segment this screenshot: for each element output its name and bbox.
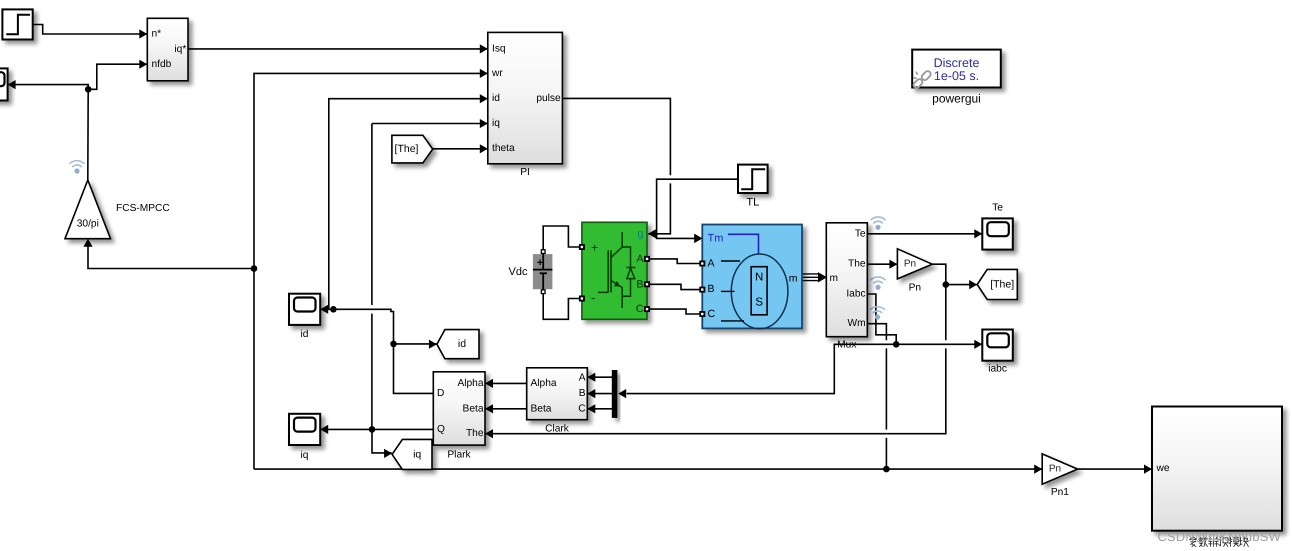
- wire step1 to n* input: [33, 25, 148, 39]
- svg-text:Pn: Pn: [909, 282, 921, 293]
- bus wire motor m to Mux: [802, 272, 827, 282]
- junction dot Iabc branch: [893, 341, 900, 348]
- powergui block: [912, 50, 1001, 90]
- label Te: [992, 203, 1003, 214]
- svg-text:id: id: [458, 338, 466, 350]
- svg-text:FCS-MPCC: FCS-MPCC: [116, 203, 170, 214]
- svg-text:we: we: [1156, 463, 1170, 474]
- label PI: [520, 167, 530, 178]
- svg-text:Wm: Wm: [847, 318, 865, 329]
- label Plark: [447, 450, 471, 461]
- svg-text:id: id: [301, 329, 309, 340]
- wire branch Q to Goto iq tag: [372, 429, 392, 458]
- gain Pn: [897, 249, 932, 279]
- signal logging badge Wm: [871, 307, 885, 320]
- inverter universal bridge (green): [579, 222, 650, 319]
- svg-text:n*: n*: [152, 29, 162, 40]
- wire gain Pn output to Goto[The] and Plark The (with hop gaps): [485, 264, 977, 438]
- subsystem Clark transform: [527, 368, 588, 420]
- svg-text:S: S: [755, 297, 763, 309]
- svg-text:nfdb: nfdb: [152, 59, 172, 70]
- wire From[The] to PI theta: [433, 144, 488, 153]
- wire Mux The to gain Pn: [867, 260, 897, 269]
- svg-text:Te: Te: [855, 228, 866, 239]
- label Pn1: [1051, 487, 1069, 498]
- svg-text:+: +: [537, 257, 543, 269]
- wire PI pulse to inverter g (with hop gap): [562, 98, 670, 238]
- subsystem speed controller n*/nfdb: [147, 18, 188, 81]
- svg-text:m: m: [830, 273, 839, 284]
- wire id feedback up to PI id: [329, 94, 488, 309]
- svg-text:A: A: [708, 257, 715, 269]
- svg-text:iq*: iq*: [174, 44, 186, 55]
- wire Wm feedback vertical to PI wr: [254, 69, 488, 469]
- wire inverter B to motor B: [647, 284, 702, 289]
- wire TL to motor Tm: [657, 179, 738, 243]
- svg-text:iq: iq: [492, 118, 500, 129]
- svg-text:iq: iq: [301, 450, 309, 461]
- svg-text:+: +: [591, 241, 598, 255]
- wire gain Pn1 to we input: [1078, 465, 1152, 474]
- label Mux: [837, 339, 856, 350]
- svg-text:[The]: [The]: [395, 143, 419, 155]
- scope iq: [289, 414, 320, 445]
- svg-text:Tm: Tm: [708, 233, 724, 245]
- junction dot Pn output branch: [943, 281, 950, 288]
- wire Vdc plus to inverter plus: [543, 226, 581, 250]
- svg-text:Pn: Pn: [904, 259, 916, 270]
- step source Step: [2, 9, 32, 39]
- svg-text:Pn: Pn: [1049, 464, 1061, 475]
- svg-text:30/pi: 30/pi: [77, 219, 99, 230]
- scope iabc: [982, 330, 1013, 361]
- From tag [The]: [392, 135, 433, 163]
- junction dot gain output branch: [85, 86, 92, 93]
- gain Pn1: [1042, 454, 1077, 484]
- label Pn: [909, 282, 921, 293]
- step source TL: [738, 165, 768, 193]
- junction dot Wm bottom: [883, 466, 890, 473]
- svg-text:Alpha: Alpha: [531, 378, 557, 389]
- scope wr (partial at left edge): [0, 68, 8, 100]
- svg-text:Vdc: Vdc: [509, 266, 528, 278]
- svg-text:Clark: Clark: [545, 423, 570, 434]
- svg-text:pulse: pulse: [536, 93, 561, 104]
- label TL: [746, 197, 759, 209]
- svg-text:Alpha: Alpha: [457, 378, 483, 389]
- junction dot wr/gain branch: [251, 265, 258, 272]
- wire demux out B to Clark B: [587, 389, 612, 398]
- svg-text:TL: TL: [746, 197, 759, 209]
- svg-text:Mux: Mux: [837, 339, 856, 350]
- wire Clark Alpha to Plark Alpha: [485, 379, 527, 388]
- svg-text:B: B: [636, 278, 643, 290]
- wire Plark Q to iq scope: [320, 425, 433, 434]
- svg-text:g: g: [637, 228, 643, 240]
- subsystem parameter identification (big block): [1152, 407, 1282, 531]
- svg-text:C: C: [578, 403, 585, 414]
- svg-text:theta: theta: [492, 143, 515, 154]
- svg-text:-: -: [591, 290, 595, 305]
- svg-text:B: B: [708, 283, 715, 295]
- label Vdc: [509, 266, 528, 278]
- wire iq* output to PI Isq: [188, 44, 488, 53]
- svg-text:N: N: [755, 272, 763, 284]
- svg-text:The: The: [848, 259, 866, 270]
- label iabc: [988, 363, 1007, 374]
- wire Mux Wm down (with hop gaps): [867, 324, 886, 469]
- wire gain 30/pi output to wr scope: [8, 80, 89, 180]
- svg-text:Beta: Beta: [463, 403, 484, 414]
- label FCS-MPCC: [116, 203, 170, 214]
- PMSM motor block (blue): [694, 225, 802, 329]
- junction dot id to PI branch: [330, 306, 337, 313]
- svg-text:powergui: powergui: [932, 92, 981, 106]
- junction dot D branch: [390, 341, 397, 348]
- CSDN watermark: [1158, 529, 1282, 544]
- svg-text:D: D: [437, 388, 444, 399]
- signal logging badge on gain output: [70, 161, 84, 174]
- wire Mux Te to Te scope: [867, 229, 982, 238]
- subsystem PI controller: [488, 32, 563, 163]
- subsystem Mux measurements: [826, 223, 867, 337]
- svg-text:iq: iq: [413, 448, 421, 460]
- wire Wm bottom bus to gain Pn1: [254, 465, 1042, 474]
- svg-text:Beta: Beta: [531, 403, 552, 414]
- svg-text:C: C: [636, 303, 644, 315]
- wire demux out C to Clark C: [587, 404, 612, 413]
- signal logging badge Iabc: [871, 277, 885, 290]
- svg-text:Te: Te: [992, 203, 1003, 214]
- junction dot Q branch: [369, 426, 376, 433]
- svg-text:A: A: [579, 372, 586, 383]
- svg-text:Pn1: Pn1: [1051, 487, 1069, 498]
- svg-text:Plark: Plark: [447, 450, 471, 461]
- Goto tag iq: [392, 439, 432, 469]
- wire branch junction to nfdb input: [88, 60, 147, 90]
- signal logging badge Te: [871, 217, 885, 230]
- wire inverter A to motor A: [647, 259, 702, 264]
- svg-text:m: m: [789, 273, 798, 285]
- label powergui: [932, 92, 981, 106]
- label id: [301, 329, 309, 340]
- svg-text:The: The: [466, 428, 484, 439]
- svg-text:B: B: [579, 388, 586, 399]
- wire branch to gain 30/pi input: [83, 239, 254, 269]
- DC source Vdc: [533, 249, 553, 294]
- gain 30/pi (FCS-MPCC): [65, 180, 111, 239]
- svg-text:iabc: iabc: [988, 363, 1007, 374]
- svg-text:CSDN@mKNnubSW: CSDN@mKNnubSW: [1158, 529, 1282, 544]
- demux (3 outputs): [612, 370, 618, 418]
- svg-text:Discrete: Discrete: [934, 56, 980, 70]
- svg-text:A: A: [636, 253, 643, 265]
- svg-text:id: id: [492, 93, 500, 104]
- scope id: [289, 294, 320, 325]
- wire Mux Iabc to iabc scope and demux: [618, 294, 982, 398]
- wire iq feedback up to PI iq (with hop gap): [372, 119, 488, 430]
- svg-text:wr: wr: [491, 68, 503, 79]
- label parameter-identification-module (CJK): [1189, 537, 1249, 547]
- wire demux out A to Clark A: [587, 373, 612, 382]
- wire inverter C to motor C: [647, 309, 702, 314]
- label iq: [301, 450, 309, 461]
- wire Plark D to id scope: [320, 305, 433, 394]
- subsystem Plark (inverse Park): [433, 372, 485, 445]
- svg-text:C: C: [708, 308, 716, 320]
- svg-text:Iabc: Iabc: [846, 289, 865, 300]
- Goto tag id: [437, 330, 479, 359]
- wire branch D to Goto id tag: [394, 340, 437, 349]
- scope Te: [982, 218, 1013, 249]
- wire Clark Beta to Plark Beta: [485, 404, 527, 413]
- wire Vdc minus to inverter minus: [543, 294, 581, 320]
- svg-text:1e-05 s.: 1e-05 s.: [934, 69, 979, 83]
- label Clark: [545, 423, 570, 434]
- Goto tag [The]: [977, 269, 1017, 299]
- svg-text:[The]: [The]: [990, 279, 1014, 291]
- svg-text:PI: PI: [520, 167, 530, 178]
- svg-text:Q: Q: [437, 424, 445, 435]
- svg-text:Isq: Isq: [492, 43, 506, 54]
